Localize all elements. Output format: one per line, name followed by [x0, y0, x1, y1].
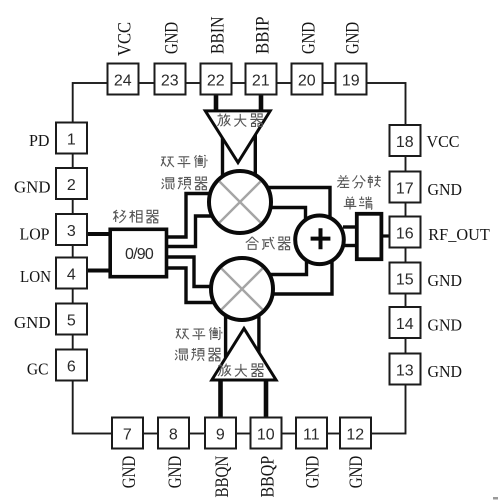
- svg-text:VCC: VCC: [115, 22, 136, 56]
- svg-text:2: 2: [67, 177, 76, 194]
- top amplifier triangle: [205, 111, 270, 163]
- svg-text:BBIN: BBIN: [208, 16, 229, 54]
- svg-text:LOP: LOP: [20, 225, 50, 244]
- bottom mixer X: [222, 269, 263, 310]
- wire bottom amp out left to bottom mixer: [224, 316, 227, 360]
- wire pin9 BBQN to bottom amp: [218, 378, 223, 418]
- label fangdaqi 放大器 bottom amp: [218, 364, 264, 377]
- svg-text:6: 6: [67, 358, 76, 375]
- svg-text:GND: GND: [346, 456, 367, 489]
- pin 21: [246, 64, 277, 95]
- summer plus: [311, 228, 331, 249]
- wire pin10 BBQP to bottom amp: [264, 378, 269, 418]
- pin 8: [158, 418, 189, 449]
- wire bottom mixer out1 to summer: [270, 258, 307, 275]
- wire phase shifter out I- to top mixer: [166, 216, 213, 247]
- pin 6: [56, 350, 87, 381]
- pin 10: [251, 418, 282, 449]
- label chafenzhuan 差分转: [337, 175, 381, 188]
- bottom amplifier triangle: [212, 329, 276, 381]
- wire bottom mixer out2 to summer: [272, 260, 332, 294]
- pin 19: [336, 64, 367, 95]
- pin 13: [390, 354, 421, 385]
- svg-text:BBIP: BBIP: [253, 17, 274, 55]
- pin 20: [292, 64, 323, 95]
- pin 22: [201, 64, 232, 95]
- pin 23: [155, 64, 186, 95]
- svg-text:BBQN: BBQN: [212, 456, 233, 498]
- svg-text:16: 16: [396, 225, 414, 242]
- svg-text:GND: GND: [343, 22, 364, 54]
- top mixer X: [220, 182, 261, 223]
- svg-text:23: 23: [161, 72, 179, 89]
- wire phase shifter out I+ to top mixer: [166, 194, 212, 238]
- label danduan 单端: [344, 196, 372, 209]
- wire top amp out right to top mixer: [254, 133, 257, 177]
- wire phase shifter out Q- to bottom mixer: [166, 268, 213, 303]
- svg-text:0/90: 0/90: [125, 246, 154, 263]
- svg-text:GND: GND: [14, 313, 51, 332]
- wire balun to pin16 RF_OUT: [381, 234, 390, 237]
- svg-text:10: 10: [257, 426, 275, 443]
- pin 4: [56, 258, 87, 289]
- svg-text:VCC: VCC: [427, 132, 460, 151]
- svg-text:17: 17: [396, 180, 414, 197]
- pin 15: [390, 263, 421, 294]
- wire pin22 BBIN to top amp: [214, 94, 219, 113]
- wire top mixer out1 to summer: [268, 188, 330, 219]
- wire LON pin4 to phase shifter: [88, 269, 112, 273]
- svg-text:LON: LON: [20, 267, 51, 286]
- svg-text:GND: GND: [428, 271, 463, 290]
- svg-text:GND: GND: [165, 456, 186, 489]
- svg-text:24: 24: [114, 72, 132, 89]
- svg-text:5: 5: [67, 312, 76, 329]
- svg-text:19: 19: [342, 72, 360, 89]
- svg-text:GND: GND: [428, 316, 463, 335]
- wire bottom amp out right to bottom mixer: [257, 316, 260, 355]
- svg-text:GND: GND: [299, 22, 320, 54]
- label hunpinqi 混频器 bottom: [175, 348, 221, 361]
- label hechengqi 合成器 (combiner): [246, 237, 291, 250]
- pin 11: [296, 418, 327, 449]
- svg-text:RF_OUT: RF_OUT: [428, 225, 490, 244]
- label fangdaqi 放大器 top amp: [217, 114, 263, 127]
- pin 3: [56, 214, 87, 245]
- svg-text:GND: GND: [303, 456, 324, 489]
- svg-text:BBQP: BBQP: [258, 456, 279, 498]
- wire top mixer out2 to summer: [270, 208, 306, 221]
- svg-text:GC: GC: [27, 360, 49, 379]
- wire summer to balun upper: [343, 225, 357, 228]
- svg-text:GND: GND: [14, 178, 51, 197]
- label yixiangqi 移相器 (phase shifter): [113, 210, 159, 223]
- corner smudge: [493, 497, 498, 500]
- pin 18: [390, 125, 421, 156]
- phase shifter box 0/90: [110, 229, 166, 276]
- chip outline ring: [73, 83, 406, 434]
- wire LOP pin3 to phase shifter: [88, 232, 112, 236]
- pin 1: [56, 123, 87, 154]
- svg-text:7: 7: [123, 426, 132, 443]
- pin 7: [112, 418, 143, 449]
- svg-text:21: 21: [252, 72, 270, 89]
- svg-text:GND: GND: [428, 180, 463, 199]
- svg-text:PD: PD: [29, 131, 50, 150]
- svg-text:13: 13: [396, 362, 414, 379]
- pin 2: [56, 168, 87, 199]
- pin 12: [340, 418, 371, 449]
- svg-text:12: 12: [346, 426, 364, 443]
- wire top amp out left to top mixer: [221, 135, 224, 178]
- svg-text:GND: GND: [428, 362, 463, 381]
- label hunpinqi 混频器 top: [162, 177, 208, 190]
- pin 16: [390, 217, 421, 248]
- wire phase shifter out Q+ to bottom mixer: [166, 257, 213, 287]
- svg-text:8: 8: [169, 426, 178, 443]
- pin 17: [390, 172, 421, 203]
- svg-text:22: 22: [207, 72, 225, 89]
- pin 24: [108, 64, 139, 95]
- diff-to-single balun box: [357, 214, 382, 259]
- wire summer to balun lower: [343, 244, 357, 247]
- svg-text:14: 14: [396, 316, 414, 333]
- svg-text:1: 1: [67, 131, 76, 148]
- pin 5: [56, 304, 87, 335]
- pin 9: [205, 418, 236, 449]
- bottom mixer circle: [211, 258, 273, 320]
- label shuangpingheng 双平衡 top: [161, 155, 207, 168]
- top mixer circle: [209, 171, 271, 233]
- svg-text:GND: GND: [162, 22, 183, 54]
- svg-text:GND: GND: [119, 456, 140, 489]
- pin 14: [390, 307, 421, 338]
- svg-text:20: 20: [298, 72, 316, 89]
- svg-text:4: 4: [67, 266, 76, 283]
- svg-text:9: 9: [216, 426, 225, 443]
- svg-text:3: 3: [67, 223, 76, 240]
- wire pin21 BBIP to top amp: [259, 94, 264, 113]
- label shuangpingheng 双平衡 bottom: [176, 327, 222, 340]
- svg-text:11: 11: [303, 426, 320, 443]
- svg-text:15: 15: [396, 271, 414, 288]
- svg-text:18: 18: [396, 134, 414, 151]
- summer circle: [295, 216, 344, 265]
